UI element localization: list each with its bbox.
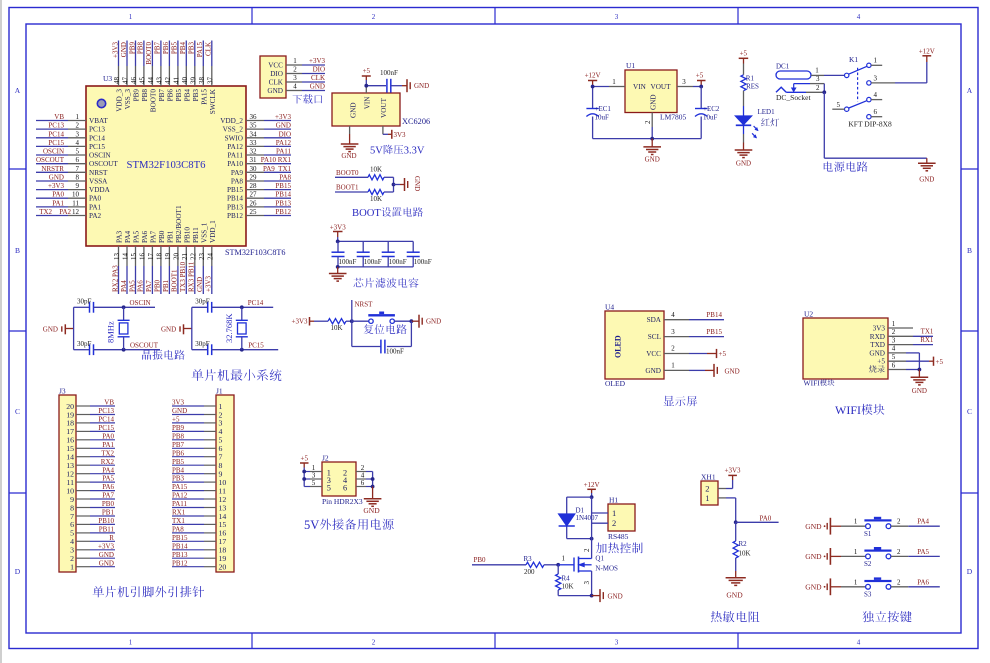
svg-text:LED1: LED1 xyxy=(758,108,776,116)
label 晶振电路 xyxy=(142,350,185,360)
U2 pin 2 RXD xyxy=(870,328,896,341)
svg-text:PB9: PB9 xyxy=(172,424,185,432)
svg-text:3: 3 xyxy=(615,639,619,647)
wire reset cap loop xyxy=(352,321,412,346)
svg-text:1: 1 xyxy=(612,78,616,86)
J3 pin 2 / net GND xyxy=(70,551,115,563)
svg-text:OSCIN: OSCIN xyxy=(130,299,151,307)
ground GND bar at BOOT xyxy=(405,176,422,191)
U3 pin 40 PB4 / net PB4 xyxy=(179,41,191,102)
svg-text:PA0: PA0 xyxy=(760,515,772,523)
svg-text:PA4: PA4 xyxy=(120,280,128,292)
svg-text:PB3: PB3 xyxy=(188,42,196,55)
svg-text:OSCOUT: OSCOUT xyxy=(89,160,118,168)
net label OSCOUT xyxy=(130,341,159,349)
wire heater trunk xyxy=(591,497,593,558)
svg-text:PB3: PB3 xyxy=(172,475,185,483)
J3 pin 4 / net R xyxy=(70,534,115,546)
DC1 pin 3 wire xyxy=(794,75,825,92)
U3 pin 23 VSS_1 / net GND xyxy=(196,222,208,294)
svg-text:PA0: PA0 xyxy=(89,195,102,203)
svg-text:30pF: 30pF xyxy=(195,298,210,306)
label 下载口 xyxy=(293,94,322,104)
net label NRST wire xyxy=(352,300,373,321)
svg-text:NRST: NRST xyxy=(89,169,108,177)
svg-text:5: 5 xyxy=(892,353,896,361)
svg-text:3: 3 xyxy=(682,78,686,86)
J1 pin 8 / net PB5 xyxy=(172,458,223,470)
U3 pin 33 PA12 / net PA12 xyxy=(227,139,291,151)
svg-text:OSCIN: OSCIN xyxy=(43,148,64,156)
svg-text:TX2: TX2 xyxy=(39,208,52,216)
svg-text:PC15: PC15 xyxy=(48,139,64,147)
svg-text:1: 1 xyxy=(705,493,709,503)
capacitor 100nF filter 4 xyxy=(407,241,432,267)
svg-text:TXD: TXD xyxy=(870,341,885,349)
svg-text:PA8: PA8 xyxy=(172,526,184,534)
wire J2 left +5 bus xyxy=(303,472,305,487)
junction D1 bottom node xyxy=(590,537,594,541)
svg-text:100nF: 100nF xyxy=(386,347,404,355)
svg-text:PA5: PA5 xyxy=(102,475,114,483)
wire BOOT0 resistor to junction xyxy=(384,176,394,178)
svg-text:4: 4 xyxy=(293,83,297,91)
svg-text:PB8: PB8 xyxy=(137,42,145,55)
ground at XC6206 GND pin xyxy=(341,144,359,160)
svg-text:WIFI: WIFI xyxy=(835,403,861,417)
download port pin 3 CLK / net CLK xyxy=(269,74,325,86)
svg-text:VB: VB xyxy=(54,113,64,121)
U2 pin 3 TXD xyxy=(870,336,896,349)
svg-text:6: 6 xyxy=(76,156,80,164)
J1 pin 10 / net PB3 xyxy=(172,475,226,487)
svg-text:32: 32 xyxy=(250,148,258,156)
svg-text:Pin HDR2X3: Pin HDR2X3 xyxy=(322,497,363,506)
U4 pin 3 SCL xyxy=(648,328,689,341)
power port +12V at K1 xyxy=(895,47,935,83)
U3 pin 36 VDD_2 / net +3V3 xyxy=(220,113,291,125)
svg-text:+3V3: +3V3 xyxy=(98,542,115,550)
svg-text:GND: GND xyxy=(161,326,176,334)
ground at thermistor divider xyxy=(726,571,746,600)
svg-text:1: 1 xyxy=(874,57,878,65)
junction R3/R4/gate node xyxy=(556,563,560,567)
U3 pin 47 VSS_3 / net GND xyxy=(120,41,132,110)
svg-text:DC_Socket: DC_Socket xyxy=(776,93,811,102)
svg-text:42: 42 xyxy=(164,77,172,85)
label 独立按键 xyxy=(863,611,912,622)
J3 pin 8 / net PB0 xyxy=(70,500,115,512)
label 5V外接备用电源 xyxy=(304,518,394,532)
svg-text:2: 2 xyxy=(671,345,675,353)
svg-text:17: 17 xyxy=(147,253,155,261)
svg-text:VOUT: VOUT xyxy=(380,97,388,118)
svg-text:VSS_2: VSS_2 xyxy=(223,126,244,134)
U3 pin 43 PB7 / net PB7 xyxy=(154,41,166,102)
svg-text:GND: GND xyxy=(172,407,187,415)
svg-text:3.3V: 3.3V xyxy=(404,146,425,157)
svg-text:VSSA: VSSA xyxy=(89,178,108,186)
svg-text:+5: +5 xyxy=(719,350,727,358)
svg-text:GND: GND xyxy=(805,583,822,592)
wifi module U2 body xyxy=(803,310,888,388)
ground GND bar at crystal 8MHz xyxy=(43,324,66,334)
svg-text:3: 3 xyxy=(615,13,619,21)
svg-text:36: 36 xyxy=(250,113,258,121)
svg-text:45: 45 xyxy=(138,77,146,85)
svg-text:GND: GND xyxy=(912,387,927,395)
U3 pin 37 SWCLK / net CLK xyxy=(205,41,217,115)
svg-text:+3V3: +3V3 xyxy=(292,318,309,326)
svg-text:BOOT0: BOOT0 xyxy=(145,42,153,65)
svg-text:5V: 5V xyxy=(304,518,319,532)
U3 pin 13 PA3 / net RX2 PA3 xyxy=(111,230,123,294)
wire S3 to PA6 xyxy=(891,578,940,587)
svg-text:VDD_2: VDD_2 xyxy=(220,117,243,125)
U3 pin 4 PC15 / net PC15 xyxy=(36,139,105,151)
svg-text:GND: GND xyxy=(645,367,661,375)
svg-text:2: 2 xyxy=(892,328,896,336)
connector H1 RS485 body xyxy=(608,496,635,542)
svg-text:PB0: PB0 xyxy=(474,556,487,564)
svg-text:+5: +5 xyxy=(936,358,944,366)
display U4 OLED body xyxy=(605,303,664,389)
J1 pin 6 / net PB7 xyxy=(172,441,223,453)
svg-text:4: 4 xyxy=(671,311,675,319)
svg-text:1: 1 xyxy=(854,548,858,556)
U3 pin 34 SWIO / net DIO xyxy=(225,130,291,142)
svg-text:30: 30 xyxy=(250,165,258,173)
svg-text:VDD_3: VDD_3 xyxy=(116,89,124,112)
connector J2 Pin HDR2X3 body xyxy=(322,454,363,507)
svg-text:J3: J3 xyxy=(59,387,66,396)
junction filter top left xyxy=(336,240,340,244)
svg-text:U4: U4 xyxy=(605,303,614,312)
svg-text:PA4: PA4 xyxy=(102,466,114,474)
svg-text:PB12: PB12 xyxy=(227,212,243,220)
connector J3 header body xyxy=(59,387,76,573)
svg-text:A: A xyxy=(967,86,973,95)
svg-text:DC1: DC1 xyxy=(776,63,790,71)
wire reset node to button xyxy=(352,320,369,322)
junction DC1 node xyxy=(822,90,826,94)
junction crystal bottom (PC15) xyxy=(240,348,244,352)
net label BOOT1 wire xyxy=(335,184,368,192)
svg-text:VBAT: VBAT xyxy=(89,117,108,125)
svg-text:2: 2 xyxy=(372,13,376,21)
H1 pin 1 wire xyxy=(592,512,608,514)
U3 pin 38 PA15 / net PA15 xyxy=(196,41,208,105)
svg-text:+3V3: +3V3 xyxy=(48,182,65,190)
svg-text:10uF: 10uF xyxy=(595,113,610,121)
svg-text:41: 41 xyxy=(172,77,180,85)
svg-text:PC14: PC14 xyxy=(98,416,114,424)
U3 pin 24 VDD_1 / net +3V3 xyxy=(205,220,217,294)
wire D1 branch xyxy=(567,497,592,538)
svg-text:PB10: PB10 xyxy=(98,517,114,525)
svg-text:31: 31 xyxy=(250,156,258,164)
svg-text:DIO: DIO xyxy=(313,66,325,74)
power port +3V3 at filter caps xyxy=(330,224,347,242)
svg-text:22: 22 xyxy=(189,253,197,261)
svg-text:4: 4 xyxy=(892,345,896,353)
U3 pin 42 PB6 / net PB6 xyxy=(162,41,174,102)
wire J2 right gnd bus xyxy=(372,472,374,487)
J1 pin 13 / net PA11 xyxy=(172,500,226,512)
svg-text:+5: +5 xyxy=(696,72,704,80)
svg-text:KFT DIP-8X8: KFT DIP-8X8 xyxy=(848,120,892,129)
svg-text:100nF: 100nF xyxy=(364,258,382,266)
svg-text:3V3: 3V3 xyxy=(873,325,886,333)
svg-text:VDDA: VDDA xyxy=(89,186,111,194)
junction reset right node xyxy=(410,319,414,323)
J2 pin 3 (left) xyxy=(304,471,322,479)
svg-text:40: 40 xyxy=(181,77,189,85)
J2 pin 4 (right) xyxy=(356,471,373,479)
svg-text:PA10 RX1: PA10 RX1 xyxy=(261,156,292,164)
svg-text:5: 5 xyxy=(327,483,331,492)
ground GND bar at XC6206 cap xyxy=(407,79,429,92)
svg-text:PA9 TX1: PA9 TX1 xyxy=(263,165,292,173)
svg-text:XH1: XH1 xyxy=(701,473,716,482)
svg-text:DIO: DIO xyxy=(270,70,283,78)
svg-text:PA7: PA7 xyxy=(145,280,153,292)
svg-text:10uF: 10uF xyxy=(703,113,718,121)
svg-text:14: 14 xyxy=(122,253,130,261)
connector XH1 body xyxy=(701,473,718,506)
svg-text:1: 1 xyxy=(671,362,675,370)
svg-text:PB15: PB15 xyxy=(275,182,291,190)
svg-text:33: 33 xyxy=(250,139,258,147)
connector DC1 DC_Socket body xyxy=(776,63,811,103)
ground at LED1 xyxy=(735,150,753,168)
U3 pin 45 PB8 / net PB8 xyxy=(137,41,149,102)
svg-text:GND: GND xyxy=(276,122,291,130)
svg-text:PA11: PA11 xyxy=(172,500,188,508)
svg-text:39: 39 xyxy=(189,77,197,85)
svg-text:1: 1 xyxy=(562,555,566,563)
wire U4 SCL to PB15 xyxy=(689,328,724,337)
svg-text:BOOT0: BOOT0 xyxy=(149,89,157,113)
resistor 10K (reset pullup) xyxy=(328,319,352,332)
svg-text:PB4: PB4 xyxy=(183,89,191,102)
svg-text:VB: VB xyxy=(104,399,114,407)
svg-text:LM7805: LM7805 xyxy=(660,113,687,122)
J3 pin 16 / net PA0 xyxy=(66,432,115,444)
svg-text:PA12: PA12 xyxy=(227,143,243,151)
svg-text:GND: GND xyxy=(310,83,325,91)
U3 pin 41 PB5 / net PB5 xyxy=(171,41,183,102)
svg-text:OSCOUT: OSCOUT xyxy=(130,341,159,349)
ground at power circuit xyxy=(918,158,936,183)
label 电源电路 xyxy=(824,161,868,171)
U3 pin 17 PA7 / net PA7 xyxy=(145,230,157,294)
mosfet Q1 N-MOS xyxy=(558,548,618,585)
J3 pin 7 / net PB1 xyxy=(70,509,115,521)
svg-text:BOOT1: BOOT1 xyxy=(336,184,359,192)
svg-text:4: 4 xyxy=(76,139,80,147)
svg-text:GND: GND xyxy=(49,174,64,182)
resistor 10K (BOOT1) xyxy=(368,189,384,203)
svg-text:PA15: PA15 xyxy=(196,41,204,57)
svg-text:PB14: PB14 xyxy=(275,191,291,199)
wire gnd to crystal caps xyxy=(184,307,192,349)
U3 pin 21 PB10 / net TX3 PB10 xyxy=(179,227,191,294)
svg-text:OSCIN: OSCIN xyxy=(89,152,111,160)
svg-text:37: 37 xyxy=(206,77,214,85)
svg-text:18: 18 xyxy=(155,253,163,261)
svg-text:GND: GND xyxy=(608,592,623,600)
wire filter caps top rail xyxy=(338,240,414,242)
download port pin 4 GND / net GND xyxy=(267,83,325,95)
svg-text:N-MOS: N-MOS xyxy=(595,565,618,573)
U3 pin 6 OSCOUT / net OSCOUT xyxy=(36,156,118,168)
wire +12V to U1 pin1 and EC1 xyxy=(593,87,609,109)
resistor R1 RES xyxy=(741,74,759,90)
U2 pin1 stub xyxy=(888,327,913,329)
ground at filter caps xyxy=(329,267,347,281)
svg-text:1: 1 xyxy=(70,563,74,572)
svg-text:PA6: PA6 xyxy=(141,230,149,243)
wire U4 SDA to PB14 xyxy=(689,311,724,320)
wire gnd to S1 xyxy=(841,518,865,527)
U1 pin 1 xyxy=(609,78,625,87)
svg-text:1: 1 xyxy=(293,57,297,65)
svg-text:NRST: NRST xyxy=(355,301,374,309)
wire Q1 source to gnd xyxy=(591,571,593,596)
svg-text:PA4: PA4 xyxy=(124,230,132,243)
svg-text:PC13: PC13 xyxy=(48,122,64,130)
wire BOOT1 resistor to junction xyxy=(384,191,394,193)
svg-text:PA6: PA6 xyxy=(917,578,929,586)
svg-text:PB8: PB8 xyxy=(172,432,185,440)
svg-text:+EC1: +EC1 xyxy=(595,105,612,113)
J3 pin 18 / net PC14 xyxy=(66,416,115,428)
svg-text:S3: S3 xyxy=(864,591,872,599)
svg-text:PA9: PA9 xyxy=(231,169,244,177)
J3 pin 3 / net +3V3 xyxy=(70,542,115,554)
svg-text:R4: R4 xyxy=(562,575,571,583)
svg-text:PA5: PA5 xyxy=(917,548,929,556)
svg-text:2: 2 xyxy=(644,120,652,124)
svg-text:1: 1 xyxy=(854,578,858,586)
pushbutton S1 xyxy=(864,517,892,538)
label 复位电路 xyxy=(364,324,407,334)
svg-text:1: 1 xyxy=(815,67,819,75)
net label BOOT0 wire xyxy=(335,169,368,177)
wire LM7805 bottom rail xyxy=(593,138,702,140)
svg-text:PA6: PA6 xyxy=(102,483,114,491)
U3 pin 22 PB11 / net RX3 PB11 xyxy=(188,227,200,294)
svg-text:38: 38 xyxy=(198,77,206,85)
svg-text:+12V: +12V xyxy=(585,72,601,80)
svg-text:2: 2 xyxy=(897,548,901,556)
wire S2 to PA5 xyxy=(891,548,940,557)
svg-text:GND: GND xyxy=(426,318,441,326)
svg-text:10K: 10K xyxy=(331,324,343,332)
svg-text:PA8: PA8 xyxy=(231,178,244,186)
svg-text:RES: RES xyxy=(746,83,759,91)
svg-text:RX1: RX1 xyxy=(920,336,934,344)
svg-text:2: 2 xyxy=(372,639,376,647)
svg-text:GND: GND xyxy=(805,552,822,561)
svg-text:5V: 5V xyxy=(370,146,383,157)
svg-text:+5: +5 xyxy=(363,67,371,75)
svg-text:GND: GND xyxy=(99,551,114,559)
svg-text:4: 4 xyxy=(857,639,861,647)
svg-text:BOOT: BOOT xyxy=(352,208,381,219)
J3 pin 13 / net RX2 xyxy=(66,458,115,470)
wire BOOT node to GND bar xyxy=(394,184,405,186)
capacitor 100nF (reset) xyxy=(381,340,404,356)
power port +12V at LM7805 input xyxy=(585,72,601,87)
label WIFI模块 xyxy=(835,403,884,417)
J1 pin 11 / net PA15 xyxy=(172,483,226,495)
U? VIN pin xyxy=(365,86,367,93)
svg-text:GND: GND xyxy=(919,176,934,184)
J3 pin 20 / net VB xyxy=(66,399,115,411)
junction BOOT node xyxy=(392,183,396,187)
svg-text:PA15: PA15 xyxy=(200,89,208,105)
svg-text:SWIO: SWIO xyxy=(225,134,243,142)
svg-text:GND: GND xyxy=(645,156,660,164)
label 5V降压3.3V xyxy=(370,145,425,157)
J3 pin 15 / net PA1 xyxy=(66,441,115,453)
svg-text:VCC: VCC xyxy=(268,62,283,70)
svg-text:PB12: PB12 xyxy=(172,559,188,567)
J1 pin 9 / net PB4 xyxy=(172,466,223,478)
svg-text:GND: GND xyxy=(869,349,885,357)
capacitor 100nF filter 3 xyxy=(382,241,407,267)
U4 pin 4 SDA xyxy=(647,311,689,324)
U1 pin 3 xyxy=(677,78,701,87)
svg-text:1: 1 xyxy=(129,13,133,21)
net label PA0 wire xyxy=(736,515,779,523)
capacitor 100nF filter 1 xyxy=(332,241,357,267)
svg-text:24: 24 xyxy=(206,253,214,261)
resistor 10K (BOOT0) xyxy=(368,166,384,180)
capacitor 30pF top (8MHz) xyxy=(74,298,155,313)
J1 pin 18 / net PB14 xyxy=(172,542,226,554)
svg-text:PC14: PC14 xyxy=(48,130,64,138)
capacitor 30pF bottom (32.768K) xyxy=(192,340,278,355)
connector J1 header body xyxy=(216,387,234,573)
svg-text:PA10: PA10 xyxy=(227,160,243,168)
svg-text:5: 5 xyxy=(76,148,80,156)
resistor R3 200 xyxy=(524,555,559,576)
svg-text:PA7: PA7 xyxy=(149,230,157,243)
svg-text:PC15: PC15 xyxy=(98,424,114,432)
J2 pin 1 (left) xyxy=(304,464,322,472)
svg-text:3: 3 xyxy=(892,336,896,344)
svg-text:D: D xyxy=(15,567,21,576)
svg-text:PC14: PC14 xyxy=(89,134,105,142)
wire +5 node to 100nF cap xyxy=(366,85,386,87)
svg-text:4: 4 xyxy=(857,13,861,21)
svg-text:R2: R2 xyxy=(739,540,748,548)
svg-text:10K: 10K xyxy=(562,583,574,591)
svg-text:+5: +5 xyxy=(877,358,885,366)
svg-text:PB15: PB15 xyxy=(172,534,188,542)
svg-text:U3: U3 xyxy=(103,74,112,83)
svg-text:44: 44 xyxy=(147,77,155,85)
svg-text:WIFI: WIFI xyxy=(804,379,821,388)
U4 pin 2 VCC xyxy=(646,345,689,358)
U3 pin 14 PA4 / net PA4 xyxy=(120,230,132,294)
U3 pin 29 PA8 / net PA8 xyxy=(231,174,292,186)
svg-text:+3V3: +3V3 xyxy=(111,41,119,58)
ground GND bar at U4 xyxy=(689,364,740,377)
